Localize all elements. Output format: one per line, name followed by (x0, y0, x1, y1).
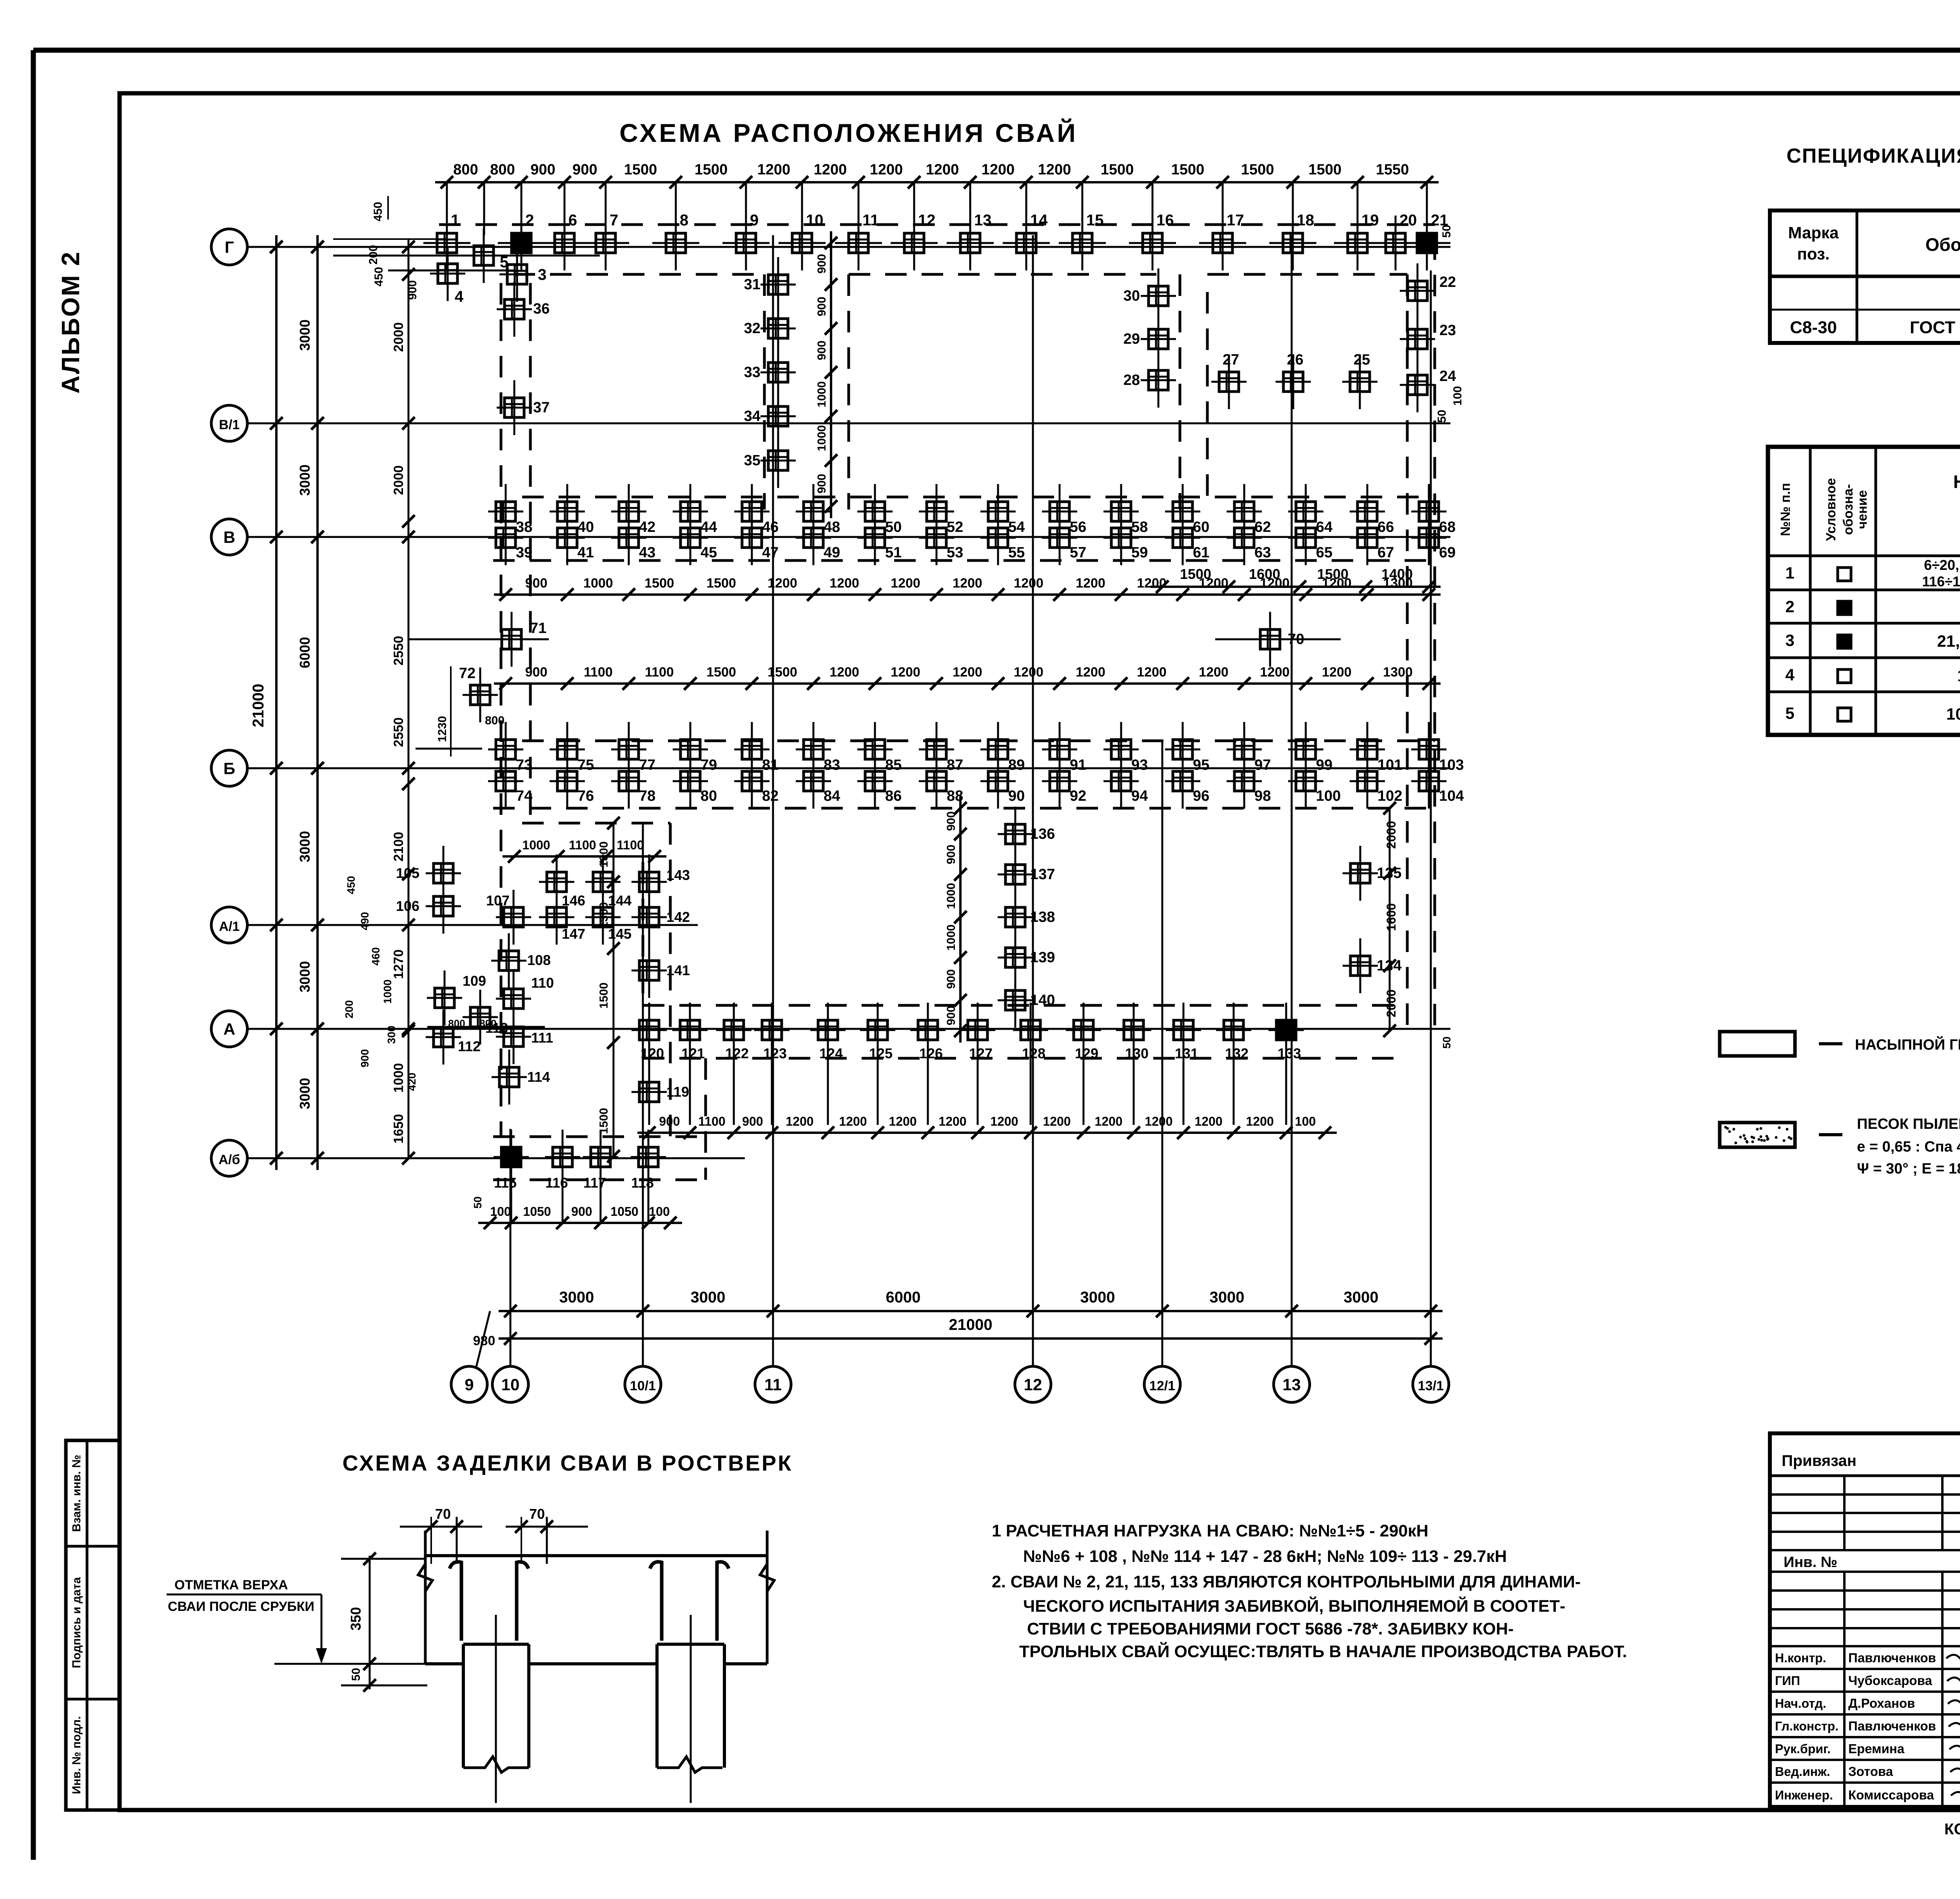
svg-text:54: 54 (1008, 519, 1025, 535)
pile 57 (1059, 510, 1061, 565)
svg-text:145: 145 (608, 926, 632, 942)
svg-text:СТВИИ С ТРЕБОВАНИЯМИ ГОСТ: СТВИИ С ТРЕБОВАНИЯМИ ГОСТ 5686 -78*. ЗАБ… (1027, 1620, 1514, 1638)
svg-text:1200: 1200 (768, 576, 797, 591)
pile 128 (1030, 1003, 1032, 1057)
pile 26 (1292, 354, 1294, 409)
svg-text:1200: 1200 (1199, 665, 1229, 680)
pile 64 (1305, 484, 1307, 539)
svg-text:59: 59 (1131, 544, 1148, 561)
svg-text:140: 140 (1030, 992, 1055, 1008)
dashed building outline top (439, 223, 1435, 226)
svg-text:1200: 1200 (829, 576, 859, 591)
svg-text:1400: 1400 (1381, 566, 1413, 582)
pile 18 (1292, 216, 1294, 270)
svg-text:51: 51 (885, 544, 902, 561)
pile 92 (1059, 754, 1061, 809)
svg-text:1000: 1000 (945, 883, 958, 909)
svg-text:2: 2 (525, 212, 534, 229)
svg-text:73: 73 (516, 757, 532, 773)
svg-text:Чубоксарова: Чубоксарова (1848, 1673, 1932, 1688)
svg-text:СХЕМА РАСПОЛОЖЕНИЯ СВАЙ: СХЕМА РАСПОЛОЖЕНИЯ СВАЙ (619, 118, 1078, 147)
pile table frame (1768, 447, 1960, 735)
dim chain below В (494, 593, 1441, 596)
pile 72 (479, 667, 481, 722)
pile 87 (936, 722, 938, 777)
svg-text:118: 118 (631, 1175, 654, 1191)
svg-text:1200: 1200 (829, 665, 859, 680)
svg-text:13: 13 (974, 212, 992, 229)
pile 44 (690, 484, 691, 539)
svg-text:15: 15 (1086, 212, 1104, 229)
svg-text:1300: 1300 (597, 842, 610, 868)
svg-text:1600: 1600 (1384, 903, 1398, 931)
axis 13/1 (1413, 1366, 1449, 1402)
svg-text:3000: 3000 (297, 464, 313, 496)
pile 71 (409, 638, 549, 640)
svg-text:13: 13 (1283, 1375, 1301, 1394)
pile 33 (777, 345, 779, 400)
svg-text:1200: 1200 (1194, 1114, 1222, 1128)
pile 19 (1357, 216, 1359, 270)
svg-text:1100: 1100 (617, 838, 644, 852)
svg-text:Взам. инв. №: Взам. инв. № (70, 1455, 83, 1532)
svg-text:147: 147 (562, 926, 585, 942)
svg-text:29: 29 (1123, 331, 1140, 347)
svg-text:900: 900 (815, 254, 828, 274)
svg-text:142: 142 (666, 909, 690, 925)
svg-text:138: 138 (1030, 909, 1055, 925)
margin stamp boxes (66, 1440, 120, 1810)
svg-text:300: 300 (385, 1026, 397, 1044)
axis 13 (1274, 1366, 1310, 1402)
svg-text:13/1: 13/1 (1418, 1378, 1444, 1393)
pile 53 (936, 510, 938, 565)
svg-text:104: 104 (1439, 788, 1464, 804)
svg-text:112: 112 (458, 1038, 481, 1054)
svg-text:115: 115 (494, 1175, 517, 1191)
top dimension chain (435, 181, 1439, 183)
pile 13 (969, 216, 971, 270)
svg-text:900: 900 (525, 665, 548, 680)
pile 101 (1367, 722, 1368, 777)
svg-text:Вед.инж.: Вед.инж. (1775, 1765, 1830, 1779)
pile 141 (648, 943, 650, 998)
pile 40 (566, 484, 568, 539)
pile 84 (813, 754, 815, 809)
svg-text:124: 124 (819, 1045, 843, 1061)
svg-text:1100: 1100 (584, 665, 613, 680)
svg-text:2000: 2000 (1384, 821, 1398, 849)
svg-text:84: 84 (824, 788, 840, 804)
pile 69 (1428, 510, 1430, 565)
svg-text:23: 23 (1439, 322, 1456, 339)
svg-text:39: 39 (516, 544, 532, 561)
svg-text:3000: 3000 (1344, 1289, 1379, 1306)
legend песок box (1720, 1123, 1795, 1147)
svg-text:СХЕМА ЗАДЕЛКИ СВАИ В РОСТВ: СХЕМА ЗАДЕЛКИ СВАИ В РОСТВЕРК (343, 1451, 793, 1475)
svg-text:1500: 1500 (768, 665, 797, 680)
svg-text:обозна-: обозна- (1841, 484, 1856, 535)
pile 117 (600, 1130, 602, 1184)
svg-text:900: 900 (945, 969, 958, 989)
svg-text:А: А (223, 1020, 235, 1038)
pile 56 (1059, 484, 1061, 539)
pile 39 (505, 510, 507, 565)
svg-text:Инв. № подл.: Инв. № подл. (70, 1716, 83, 1794)
axis А/б (211, 1140, 247, 1176)
svg-text:108: 108 (527, 952, 551, 968)
pile 20 (1395, 216, 1397, 270)
svg-text:114: 114 (527, 1069, 550, 1085)
rostverk top line (425, 1554, 767, 1557)
pile 9 (745, 216, 747, 270)
pile 16 (1152, 216, 1154, 270)
svg-text:6000: 6000 (297, 637, 313, 668)
pile 107 (513, 890, 515, 945)
pile 103 (1428, 722, 1430, 777)
svg-text:980: 980 (473, 1333, 495, 1348)
axis 9 (451, 1366, 487, 1402)
svg-text:48: 48 (824, 519, 840, 535)
pile 68 (1428, 484, 1430, 539)
svg-text:1100: 1100 (698, 1114, 725, 1128)
svg-text:7: 7 (610, 212, 618, 229)
svg-text:350: 350 (348, 1607, 364, 1631)
pile 2 (521, 216, 523, 270)
pile 91 (1059, 722, 1061, 777)
svg-text:Зотова: Зотова (1848, 1764, 1893, 1779)
svg-text:116÷132 , 134÷147: 116÷132 , 134÷147 (1922, 573, 1960, 589)
dashed А band (643, 1004, 1407, 1007)
pile 112 (443, 1010, 445, 1065)
svg-text:1200: 1200 (1322, 665, 1352, 680)
pile 10 (801, 216, 803, 270)
pile 115 (510, 1130, 512, 1184)
svg-text:92: 92 (1070, 788, 1086, 804)
svg-text:5: 5 (1785, 704, 1794, 722)
pile 105 (443, 846, 445, 901)
svg-text:1200: 1200 (889, 1114, 916, 1128)
svg-text:1300: 1300 (597, 902, 610, 929)
pile 12 (913, 216, 915, 270)
svg-text:110: 110 (531, 975, 554, 991)
svg-text:1200: 1200 (1014, 576, 1044, 591)
svg-text:1200: 1200 (1145, 1114, 1172, 1128)
pile 32 (777, 301, 779, 356)
pile 78 (628, 754, 630, 809)
svg-text:75: 75 (577, 757, 594, 773)
svg-text:900: 900 (525, 576, 548, 591)
svg-text:Обозначение: Обозначение (1926, 234, 1960, 255)
dim chain 1500 1600 1500 1400 (1151, 586, 1441, 588)
svg-text:32: 32 (744, 320, 760, 337)
col 31-35 dims (830, 231, 832, 518)
pile 50 (874, 484, 876, 539)
pile 96 (1182, 754, 1184, 809)
svg-text:900: 900 (945, 811, 958, 831)
svg-text:10/1: 10/1 (630, 1378, 656, 1393)
svg-text:82: 82 (762, 788, 779, 804)
svg-text:18: 18 (1297, 212, 1314, 229)
svg-text:1300: 1300 (1383, 665, 1413, 680)
pile 94 (1120, 754, 1122, 809)
svg-text:1000: 1000 (522, 838, 550, 852)
dashed wall right room (1179, 274, 1181, 510)
svg-text:8: 8 (680, 212, 688, 229)
pile 114 (508, 1050, 510, 1105)
svg-text:6000: 6000 (886, 1289, 921, 1306)
svg-text:Павлюченков: Павлюченков (1848, 1651, 1936, 1665)
svg-text:1500: 1500 (706, 665, 736, 680)
svg-text:900: 900 (815, 297, 828, 316)
svg-text:АЛЬБОМ 2: АЛЬБОМ 2 (56, 251, 85, 394)
svg-text:86: 86 (885, 788, 902, 804)
svg-text:800: 800 (490, 161, 515, 178)
svg-text:34: 34 (744, 408, 760, 424)
svg-text:1100: 1100 (569, 838, 596, 852)
svg-text:ГОСТ 19804.1- 79*: ГОСТ 19804.1- 79* (1910, 318, 1960, 337)
pile 99 (1305, 722, 1307, 777)
pile 77 (628, 722, 630, 777)
svg-text:1200: 1200 (1094, 1114, 1122, 1128)
pile 60 (1182, 484, 1184, 539)
svg-text:100: 100 (649, 1204, 670, 1219)
svg-text:109: 109 (463, 973, 486, 989)
svg-text:1500: 1500 (706, 576, 736, 591)
pile 143 (648, 854, 650, 909)
svg-text:95: 95 (1193, 757, 1209, 773)
svg-text:СВАИ ПОСЛЕ СРУБКИ: СВАИ ПОСЛЕ СРУБКИ (168, 1599, 314, 1614)
pile 89 (997, 722, 999, 777)
pile 3 (516, 247, 518, 302)
svg-text:63: 63 (1254, 544, 1271, 561)
dashed Б band (522, 740, 1435, 742)
svg-text:135: 135 (1377, 865, 1401, 881)
pile 138 (1014, 890, 1016, 945)
pile 38 (505, 484, 507, 539)
svg-text:50: 50 (350, 1668, 363, 1681)
svg-text:Привязан: Привязан (1782, 1452, 1857, 1469)
pile 55 (997, 510, 999, 565)
svg-text:1500: 1500 (1241, 161, 1274, 178)
svg-text:чение: чение (1855, 490, 1870, 529)
pile 118 (648, 1130, 650, 1184)
svg-text:1230: 1230 (436, 716, 449, 742)
piles 134 135 (1359, 846, 1361, 901)
svg-text:93: 93 (1131, 757, 1148, 773)
svg-text:№№6 + 108 , №№ 114 + 147 - 28: №№6 + 108 , №№ 114 + 147 - 28 6кН; №№ 10… (1023, 1547, 1507, 1566)
svg-text:1200: 1200 (814, 161, 847, 178)
pile 109 (444, 970, 446, 1025)
svg-text:900: 900 (945, 1006, 958, 1025)
pile 7 (605, 216, 607, 270)
svg-text:Гл.констр.: Гл.констр. (1775, 1719, 1838, 1733)
svg-text:1: 1 (451, 212, 459, 229)
svg-text:3: 3 (1785, 631, 1794, 649)
svg-text:70: 70 (435, 1506, 451, 1522)
svg-text:12/1: 12/1 (1149, 1378, 1175, 1393)
svg-text:1, 3÷ 5: 1, 3÷ 5 (1957, 666, 1960, 685)
pile 43 (628, 510, 630, 565)
svg-text:1000: 1000 (945, 925, 958, 951)
pile 133 (1285, 1003, 1287, 1057)
page outer border top (33, 48, 1960, 53)
pile 144 (602, 854, 604, 909)
svg-text:70: 70 (529, 1506, 545, 1522)
svg-text:99: 99 (1316, 757, 1332, 773)
svg-text:1200: 1200 (982, 161, 1015, 178)
detail pile 1 (462, 1644, 465, 1768)
svg-text:132: 132 (1225, 1045, 1249, 1061)
svg-text:119: 119 (666, 1084, 689, 1100)
svg-text:1000: 1000 (391, 1063, 406, 1093)
pile 45 (690, 510, 691, 565)
svg-text:121: 121 (681, 1045, 705, 1061)
svg-text:1200: 1200 (1038, 161, 1071, 178)
svg-text:Ψ = 30° ; Е = 180 МПа: Ψ = 30° ; Е = 180 МПа (1857, 1161, 1960, 1177)
svg-text:ОТМЕТКА ВЕРХА: ОТМЕТКА ВЕРХА (174, 1578, 288, 1592)
svg-text:98: 98 (1254, 788, 1271, 804)
svg-text:127: 127 (969, 1045, 993, 1061)
svg-text:1050: 1050 (523, 1204, 551, 1219)
svg-text:450: 450 (345, 876, 357, 894)
svg-text:131: 131 (1175, 1045, 1198, 1061)
svg-text:58: 58 (1131, 519, 1148, 535)
pile 111 (513, 1009, 515, 1064)
detail pile 2 (655, 1644, 659, 1768)
pile 119 (648, 1065, 650, 1119)
svg-text:76: 76 (577, 788, 594, 804)
svg-text:1270: 1270 (391, 949, 406, 979)
svg-text:55: 55 (1008, 544, 1025, 561)
svg-text:20: 20 (1399, 212, 1417, 229)
svg-text:133: 133 (1278, 1045, 1301, 1061)
pile 65 (1305, 510, 1307, 565)
svg-text:70: 70 (1288, 631, 1304, 648)
svg-text:А/б: А/б (218, 1152, 240, 1167)
pile 90 (997, 754, 999, 809)
svg-text:2550: 2550 (391, 717, 406, 747)
pile 102 (1367, 754, 1368, 809)
svg-text:12: 12 (1024, 1375, 1042, 1394)
svg-text:41: 41 (577, 544, 594, 561)
dim chain 1000 1100 1100 (503, 855, 666, 858)
svg-text:900: 900 (572, 161, 597, 178)
svg-text:65: 65 (1316, 544, 1332, 561)
svg-text:1650: 1650 (391, 1114, 406, 1144)
axis 11 (755, 1366, 791, 1402)
pile 21 (1426, 216, 1428, 270)
svg-text:100: 100 (490, 1204, 511, 1219)
svg-text:е = 0,65 : Спа 4 кПа: е = 0,65 : Спа 4 кПа (1857, 1139, 1960, 1155)
svg-text:102: 102 (1377, 788, 1402, 804)
svg-text:96: 96 (1193, 788, 1209, 804)
svg-text:106: 106 (396, 898, 419, 914)
svg-text:19: 19 (1361, 212, 1379, 229)
svg-text:87: 87 (947, 757, 963, 773)
dashed left wall (500, 283, 503, 1137)
break symbol (418, 1564, 432, 1591)
svg-text:143: 143 (666, 867, 690, 883)
svg-text:47: 47 (762, 544, 779, 561)
svg-text:3000: 3000 (297, 1078, 313, 1109)
svg-text:3000: 3000 (297, 961, 313, 992)
axis 10 (492, 1366, 528, 1402)
svg-text:1500: 1500 (597, 983, 610, 1009)
pile 137 (1014, 847, 1016, 902)
svg-text:40: 40 (577, 519, 594, 535)
bottom dim chain 3000s (499, 1310, 1443, 1312)
dim chain above Б (494, 682, 1441, 685)
svg-text:2000: 2000 (391, 322, 406, 352)
pile 81 (751, 722, 753, 777)
rebar U shapes (450, 1562, 461, 1641)
pile 142 (648, 890, 650, 945)
pile 132 (1233, 1003, 1235, 1057)
svg-text:1500: 1500 (1308, 161, 1342, 178)
pile 5 (483, 228, 485, 283)
svg-text:2100: 2100 (391, 832, 406, 862)
pile 98 (1243, 754, 1245, 809)
svg-text:25: 25 (1354, 352, 1370, 368)
svg-text:134: 134 (1377, 958, 1401, 974)
left dim chain 21000 (275, 235, 278, 1170)
spec table frame (1770, 210, 1960, 343)
svg-text:27: 27 (1223, 352, 1239, 368)
svg-text:3000: 3000 (559, 1289, 594, 1306)
svg-text:1500: 1500 (1101, 161, 1134, 178)
personnel rows (1770, 1668, 1960, 1670)
svg-text:71: 71 (530, 620, 546, 637)
svg-text:НАСЫПНОЙ ГРУНТ: НАСЫПНОЙ ГРУНТ (1855, 1036, 1960, 1053)
pile 129 (1083, 1003, 1085, 1057)
svg-text:100: 100 (1316, 788, 1341, 804)
svg-text:1200: 1200 (870, 161, 903, 178)
pile 130 (1133, 1003, 1135, 1057)
pile 59 (1120, 510, 1122, 565)
svg-text:2: 2 (1785, 597, 1794, 616)
svg-text:2. СВАИ № 2, 21, 115, 133 Я: 2. СВАИ № 2, 21, 115, 133 ЯВЛЯЮТСЯ КОНТР… (992, 1573, 1581, 1591)
svg-text:1200: 1200 (1137, 665, 1167, 680)
svg-text:3000: 3000 (1080, 1289, 1115, 1306)
svg-text:поз.: поз. (1797, 245, 1829, 263)
svg-text:38: 38 (516, 519, 532, 535)
privyazan table (1770, 1433, 1960, 1807)
pile 100 (1305, 754, 1307, 809)
svg-text:1000: 1000 (815, 381, 828, 408)
pile 113 (479, 990, 481, 1045)
svg-text:6: 6 (568, 212, 577, 229)
svg-text:37: 37 (533, 399, 550, 416)
svg-text:126: 126 (919, 1045, 943, 1061)
pile 131 (1183, 1003, 1185, 1057)
pile 25 (1359, 354, 1361, 409)
svg-text:900: 900 (359, 1049, 371, 1068)
pile 73 (505, 722, 507, 777)
svg-text:Нач.отд.: Нач.отд. (1775, 1696, 1826, 1710)
svg-text:30: 30 (1123, 288, 1140, 304)
svg-text:50: 50 (1441, 1036, 1453, 1048)
svg-text:139: 139 (1030, 949, 1055, 966)
pile 83 (813, 722, 815, 777)
svg-text:52: 52 (947, 519, 963, 535)
svg-text:Инженер.: Инженер. (1775, 1788, 1833, 1802)
svg-text:1200: 1200 (953, 665, 982, 680)
svg-text:№№ п.п: №№ п.п (1778, 483, 1793, 536)
pile 82 (751, 754, 753, 809)
svg-text:СПЕЦИФИКАЦИЯ К СХЕМЕ РАСПОЛ: СПЕЦИФИКАЦИЯ К СХЕМЕ РАСПОЛОЖЕНИЯ СВАЙ (1786, 144, 1960, 167)
pile 36 (514, 282, 515, 337)
